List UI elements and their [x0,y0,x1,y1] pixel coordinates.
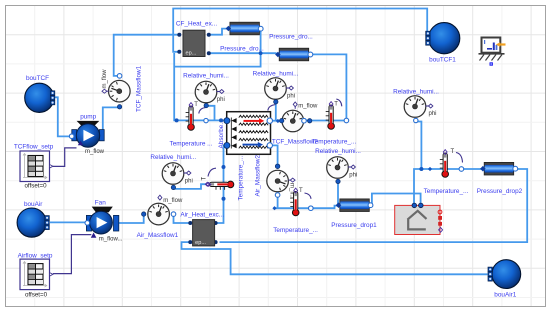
gauge TCF_Massflow2 [272,102,319,145]
svg-text:Pressure_dro...: Pressure_dro... [269,34,313,41]
wire bouTCF to pump [53,97,72,136]
pump pump [69,113,104,154]
svg-text:Pressure_dro...: Pressure_dro... [220,46,264,53]
gauge Relative_humi [183,72,229,108]
svg-text:Temperature_...: Temperature_... [312,138,357,145]
wire Pressure_dro right to sensor line [305,54,347,120]
svg-text:Relative_humi...: Relative_humi... [393,88,439,95]
boundary bouTCF1 [426,23,460,64]
signal arc Temperature_4 [456,153,463,163]
node diamonds temperature_3 line [272,206,276,210]
svg-text:Relative_humi...: Relative_humi... [183,72,229,79]
wire Pressure_drop2 right down to Air_Heat_exc [220,169,528,242]
svg-text:T: T [334,102,338,108]
wire Air_Heat_exc to absorber air in [216,145,225,223]
pipe Pressure_drop1 [331,199,377,229]
gauge Relative_humi_1 [253,70,299,104]
signal arc Relative_humi_1 [268,105,276,111]
svg-text:bouAir1: bouAir1 [494,291,516,298]
wire CF_Heat_ex port b1 to bouTCF1 [173,9,427,52]
heat exchanger CF_Heat_ex [176,21,217,57]
wire branch down to y67 run [174,55,260,67]
wire Relative_humi tap [206,106,214,121]
svg-text:offset=0: offset=0 [25,291,48,298]
pipe Pressure_drop2 [477,162,523,195]
thermometer Temperature_1 [312,102,357,146]
svg-text:TCF_Massflow1: TCF_Massflow1 [136,65,143,112]
gauge Relative_humi_2 [315,148,361,184]
wire Air_Massflow2 down to temperature line [277,196,279,209]
boundary bouAir1 [488,260,521,299]
wire CF_Heat_ex port b2 to junction to Pressure_dro pipe [210,52,277,54]
svg-text:Absorbe...: Absorbe... [218,119,225,148]
svg-text:bouAir: bouAir [24,201,43,208]
svg-text:Relative_humi...: Relative_humi... [150,154,196,161]
wire junction up to Pressure_dn pipe right port [260,29,262,53]
svg-text:Temperature_...: Temperature_... [273,227,318,234]
thermometer Temperature_4 [424,149,469,195]
node T2 output diamond [205,182,209,186]
svg-text:m_flow: m_flow [298,104,318,110]
svg-text:bouTCF: bouTCF [26,75,49,82]
gauge Relative_humi lower-left [150,154,196,189]
svg-text:phi: phi [217,97,225,103]
wire Relative_humi_1 tap [275,101,277,121]
thermometer Temperature_2 horizontal [202,156,245,201]
wire TCF_Massflow1 to CF_Heat_ex port a1 [114,35,178,76]
node dots on air riser [222,165,226,169]
heat exchanger Air_Heat_exc [180,211,224,246]
pipe Pressure_dn [220,22,264,52]
svg-text:T: T [451,149,455,155]
svg-text:Relative_humi...: Relative_humi... [315,148,361,155]
wire Air_Massflow1 to Air_Heat_exc [174,214,191,223]
node pump inlet handled; node junction CF [259,51,263,55]
svg-text:Fan: Fan [95,199,106,206]
wire bouAir to Fan [50,221,87,223]
boundary bouAir [17,201,49,237]
wire Relative_humi_2 tap to Pressure_drop1 left port [337,181,339,205]
junction dots and ports [175,51,464,210]
svg-text:phi: phi [349,172,357,178]
svg-text:phi: phi [185,178,193,184]
svg-text:T: T [299,188,303,194]
svg-text:Pressure_drop1: Pressure_drop1 [331,222,377,229]
svg-text:phi: phi [429,111,437,117]
gauge TCF_Massflow1 rotated [102,65,143,112]
table block TCFflow_setp [14,144,54,190]
signal arc Relative_humi [199,108,206,114]
svg-text:CF_Heat_ex...: CF_Heat_ex... [176,21,217,28]
svg-text:Air_Massflow2: Air_Massflow2 [255,155,262,197]
svg-text:Pressure_drop2: Pressure_drop2 [477,188,523,195]
signal arc Temperature_2 [208,168,216,176]
node diamond absorber out [276,119,280,123]
svg-text:Temperature ...: Temperature ... [170,140,213,147]
svg-text:Relative_humi...: Relative_humi... [253,70,299,77]
svg-text:phi: phi [287,93,295,99]
svg-text:bouTCF1: bouTCF1 [429,57,456,64]
house zone [395,203,443,234]
signal Airflow_setp to Fan [53,235,91,274]
node junction at RH3 [419,167,423,171]
svg-text:m_flow...: m_flow... [99,236,123,242]
wire Air_Heat_exc to bouAir1 [182,242,488,274]
gauge Relative_humi_3 [393,88,439,122]
svg-text:Airflow_setp: Airflow_setp [18,253,53,260]
wire absorber air out to Air_Massflow2 [269,145,277,165]
wire Relative_humi_3 tap to junction [416,122,422,170]
gauge Air_Massflow2 rotated [255,155,296,200]
svg-text:T: T [194,102,198,108]
fan Fan [85,199,123,242]
thermometer Temperature_3 [273,188,318,234]
wire house port 1 up and temperature_4 run to Pressure_drop2 [414,169,483,203]
svg-text:Temperature_...: Temperature_... [424,188,469,195]
thermometer Temperature [170,102,213,147]
wire Fan to Air_Massflow1 [119,214,144,223]
node circle on TCF sensor line [308,119,312,123]
svg-text:TCFflow_setp: TCFflow_setp [14,144,54,151]
boundary bouTCF [25,75,55,112]
svg-text:Air_Heat_exc...: Air_Heat_exc... [180,211,224,218]
wire CF_Heat_ex port to absorber water line [174,53,225,120]
svg-text:m_flow: m_flow [102,69,108,89]
table block Airflow_setp [18,253,53,299]
wire CF_Heat_ex port a2 to Pressure_dn pipe left port [210,29,227,35]
wire Relative_humi tap lower [173,184,205,189]
signal arc Temperature_1 [336,99,342,106]
signal TCFflow_setp to pump [53,148,77,167]
pipe Pressure_dro [269,34,313,61]
gauge Air_Massflow1 [137,195,183,239]
signal arc Temperature_3 [305,193,312,199]
svg-text:T: T [202,177,208,181]
svg-text:Temperature_...: Temperature_... [238,156,245,201]
svg-text:pump: pump [80,113,96,120]
wire absorber out to TCF_Massflow2 [269,120,282,122]
absorber Absorber [218,112,272,155]
computer results icon [479,38,506,66]
svg-text:offset=0: offset=0 [24,183,47,190]
wire temperature_3 line to Pressure_drop1 [275,206,339,209]
svg-text:Air_Massflow1: Air_Massflow1 [137,232,179,239]
wire Pressure_drop1 to house port 2 [370,194,421,206]
svg-text:m_flow: m_flow [85,149,105,155]
svg-text:m_flow: m_flow [163,198,183,204]
node dot on water line [175,118,179,122]
wire pump to TCF_Massflow1 [103,107,120,136]
